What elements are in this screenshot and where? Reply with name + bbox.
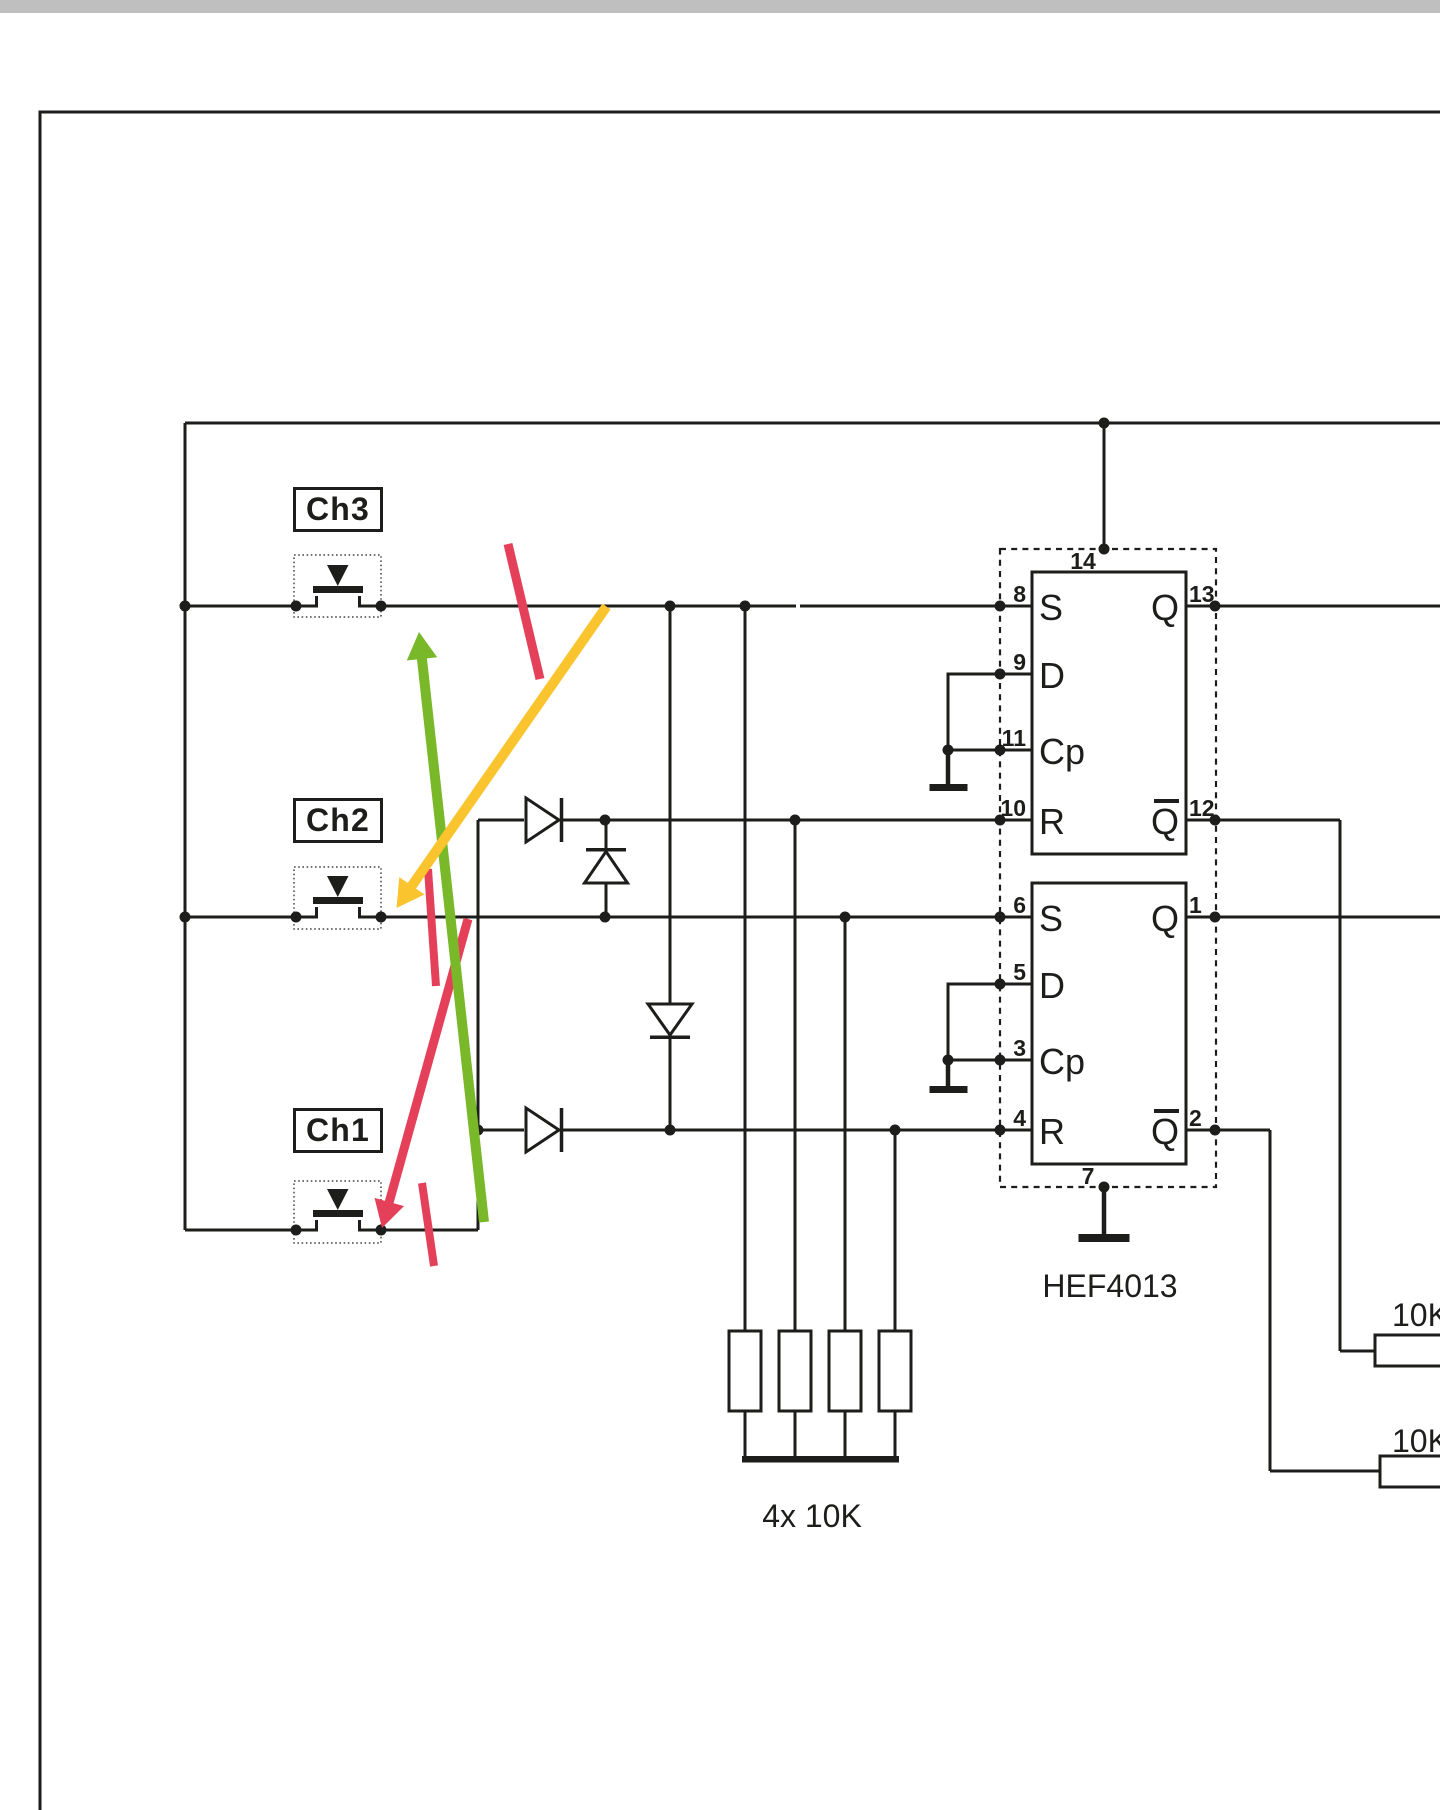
svg-text:Ch2: Ch2 bbox=[306, 802, 370, 838]
junction: pin 10 on dashed box bbox=[995, 815, 1006, 826]
svg-text:Q: Q bbox=[1151, 1111, 1179, 1152]
svg-text:11: 11 bbox=[1002, 725, 1027, 751]
wire: +V top rail bbox=[185, 422, 1440, 425]
svg-text:9: 9 bbox=[1013, 649, 1026, 675]
svg-text:6: 6 bbox=[1013, 892, 1026, 918]
junction: reset chain / pin4 row bbox=[473, 1125, 484, 1136]
svg-text:S: S bbox=[1039, 898, 1063, 939]
resistor R1 bbox=[729, 1331, 761, 1411]
terminal: S1 right bbox=[376, 1225, 387, 1236]
svg-text:4x 10K: 4x 10K bbox=[762, 1498, 862, 1534]
junction: pin 3 on dashed box bbox=[995, 1055, 1006, 1066]
svg-text:5: 5 bbox=[1013, 959, 1026, 985]
annotation: red press stroke at Ch3 bbox=[508, 544, 540, 679]
wire: column pin4 to R4 bbox=[894, 1130, 897, 1331]
svg-text:S: S bbox=[1039, 587, 1063, 628]
wire: R pin10 row bbox=[478, 819, 1032, 822]
ground G2 (pin 3) bbox=[930, 1060, 968, 1093]
annotation: red arrow Ch2 to Ch1 bbox=[375, 919, 469, 1228]
svg-text:D: D bbox=[1039, 965, 1065, 1006]
svg-text:Cp: Cp bbox=[1039, 731, 1085, 772]
junction: pin 9 on dashed box bbox=[995, 669, 1006, 680]
junction: left bus / Ch2 row bbox=[180, 912, 191, 923]
diode D1 (Ch1 to pin 10) bbox=[526, 798, 562, 842]
flip-flop FF2 body bbox=[1032, 883, 1186, 1164]
wire: reset chain vertical bbox=[477, 820, 480, 1230]
label Ch2 bbox=[295, 800, 382, 842]
annotation: red press stroke at Ch1 bbox=[422, 1183, 434, 1266]
wire: pin9 D loop bbox=[948, 674, 1032, 750]
svg-text:Ch3: Ch3 bbox=[306, 491, 370, 527]
wire: column pin8 to R1 bbox=[744, 606, 747, 1331]
label Ch3 bbox=[295, 489, 382, 531]
wire: column pin10 to R2 bbox=[794, 820, 797, 1331]
wire: Qbar pin2 to R6 bbox=[1186, 1130, 1380, 1471]
wire: Q output pin 13 bbox=[1186, 605, 1440, 608]
annotation: red press stroke at Ch2 bbox=[428, 869, 436, 986]
FF2 label Qbar bbox=[1151, 1109, 1179, 1152]
wire: pin11 Cp stub bbox=[948, 749, 1032, 752]
junction: D-Cp loop / ground G1 bbox=[943, 745, 954, 756]
svg-text:R: R bbox=[1039, 1111, 1065, 1152]
junction: Ch3 row / R1 column bbox=[740, 601, 751, 612]
svg-text:3: 3 bbox=[1013, 1035, 1026, 1061]
junction: Ch2 row / R3 column bbox=[840, 912, 851, 923]
terminal: S3 left bbox=[291, 601, 302, 612]
label Ch1 bbox=[295, 1110, 382, 1152]
svg-text:2: 2 bbox=[1189, 1105, 1202, 1131]
FF1 label Qbar bbox=[1151, 799, 1179, 842]
junction: top rail / pin14 drop bbox=[1099, 418, 1110, 429]
junction: pin 14 on dashed box bbox=[1099, 544, 1110, 555]
junction: pin10 row / R2 column bbox=[790, 815, 801, 826]
svg-text:7: 7 bbox=[1082, 1163, 1095, 1189]
junction: pin 5 on dashed box bbox=[995, 979, 1006, 990]
svg-text:Q: Q bbox=[1151, 587, 1179, 628]
junction: pin 11 on dashed box bbox=[995, 745, 1006, 756]
svg-text:10K: 10K bbox=[1392, 1423, 1440, 1459]
wire: Ch2 row to pin 6 S bbox=[185, 916, 1032, 919]
wire: Ch1 row bbox=[185, 1229, 478, 1232]
svg-text:D: D bbox=[1039, 655, 1065, 696]
svg-text:Q: Q bbox=[1151, 801, 1179, 842]
svg-text:1: 1 bbox=[1189, 892, 1202, 918]
IC dashed boundary HEF4013 bbox=[1000, 549, 1216, 1187]
wire: left bus bbox=[184, 423, 187, 1230]
wire: column pin8 through D4 to pin4 bbox=[669, 606, 672, 1130]
svg-text:HEF4013: HEF4013 bbox=[1042, 1268, 1177, 1304]
svg-text:10K: 10K bbox=[1392, 1297, 1440, 1333]
svg-text:R: R bbox=[1039, 801, 1065, 842]
diode D2 (Ch1 to pin 4) bbox=[526, 1108, 562, 1152]
junction: Ch2 row / D3 bbox=[600, 912, 611, 923]
wire: Q output pin 1 bbox=[1186, 916, 1440, 919]
resistor R4 bbox=[879, 1331, 911, 1411]
resistor R3 bbox=[829, 1331, 861, 1411]
ground G1 (pin 11) bbox=[930, 750, 968, 791]
svg-text:Q: Q bbox=[1151, 898, 1179, 939]
wire: R pin4 row bbox=[478, 1129, 1032, 1132]
junction: Ch3 row / D4 column bbox=[665, 601, 676, 612]
svg-text:Cp: Cp bbox=[1039, 1041, 1085, 1082]
resistor R5 (pin 12) bbox=[1375, 1335, 1440, 1366]
diode D3 (pin6 row to pin10 row, vertical) bbox=[585, 820, 628, 917]
terminal: S2 right bbox=[376, 912, 387, 923]
terminal: S1 left bbox=[291, 1225, 302, 1236]
push-button S2 (Ch2) bbox=[294, 867, 381, 929]
ground bus bar under resistor bank bbox=[742, 1456, 899, 1463]
svg-text:8: 8 bbox=[1013, 581, 1026, 607]
wire: column pin6 to R3 bbox=[844, 917, 847, 1331]
junction: pin4 row / R4 column bbox=[890, 1125, 901, 1136]
terminal: S2 left bbox=[291, 912, 302, 923]
annotation: yellow arrow Ch3 to Ch2 bbox=[397, 607, 607, 909]
junction: pin4 row / D4 column bbox=[665, 1125, 676, 1136]
junction: pin 12 on dashed box bbox=[1210, 815, 1221, 826]
junction: pin 6 on dashed box bbox=[995, 912, 1006, 923]
junction: pin 8 on dashed box bbox=[995, 601, 1006, 612]
wire: pin3 Cp stub bbox=[948, 1059, 1032, 1062]
svg-text:Ch1: Ch1 bbox=[306, 1112, 370, 1148]
page top gray bar bbox=[0, 0, 1440, 13]
terminal: S3 right bbox=[376, 601, 387, 612]
resistor R2 bbox=[779, 1331, 811, 1411]
junction: D-Cp loop / ground G2 bbox=[943, 1055, 954, 1066]
resistor R6 (pin 2) bbox=[1380, 1456, 1440, 1487]
junction: pin 4 on dashed box bbox=[995, 1125, 1006, 1136]
junction: pin10 row / D3 bbox=[600, 815, 611, 826]
ground G3 (pin 7) bbox=[1079, 1187, 1130, 1242]
wires: resistor bank bottom stubs bbox=[745, 1411, 895, 1456]
wire: supply drop to pin 14 bbox=[1103, 423, 1106, 549]
wire: Qbar pin12 to R5 bbox=[1186, 820, 1375, 1351]
annotation: green arrow Ch1 to Ch3 bbox=[407, 632, 484, 1222]
junction: pin 13 on dashed box bbox=[1210, 601, 1221, 612]
wire: Ch3 row to pin 8 S bbox=[185, 605, 1032, 608]
junction: pin 7 on dashed box bbox=[1099, 1182, 1110, 1193]
junction: left bus / Ch3 row bbox=[180, 601, 191, 612]
junction: pin 1 on dashed box bbox=[1210, 912, 1221, 923]
push-button S3 (Ch3) bbox=[294, 555, 381, 617]
flip-flop FF1 body bbox=[1032, 572, 1186, 854]
svg-text:14: 14 bbox=[1070, 548, 1096, 574]
diode D4 (pin8 column to pin4 row, vertical) bbox=[648, 1004, 692, 1037]
junction: pin 2 on dashed box bbox=[1210, 1125, 1221, 1136]
wire: pin5 D loop bbox=[948, 984, 1032, 1060]
svg-text:4: 4 bbox=[1013, 1105, 1026, 1131]
push-button S1 (Ch1) bbox=[294, 1181, 381, 1243]
